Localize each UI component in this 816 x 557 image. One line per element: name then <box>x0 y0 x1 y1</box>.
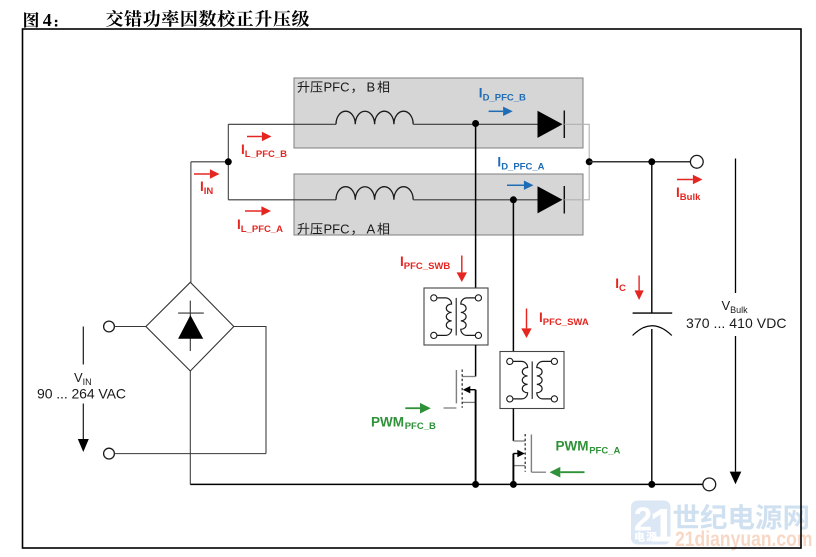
arrow I_IN <box>194 173 210 175</box>
AC input terminal top <box>104 321 115 332</box>
svg-text:PFC_B: PFC_B <box>405 421 436 432</box>
arrow I_D_PFC_A <box>507 184 524 186</box>
wire B tap to transformer <box>475 124 477 289</box>
arrow PWM_PFC_B gate drive <box>405 407 420 409</box>
wire transformer B to MOSFET drain <box>475 345 477 377</box>
node bus B source <box>472 481 479 488</box>
svg-text:C: C <box>619 283 626 294</box>
svg-text:A: A <box>367 222 376 237</box>
diode D_PFC_A <box>538 186 563 213</box>
svg-text:IN: IN <box>204 186 214 197</box>
wire bus to capacitor <box>651 162 653 313</box>
svg-text:D_PFC_B: D_PFC_B <box>483 93 526 104</box>
bridge rectifier <box>146 282 234 371</box>
DC output terminal bottom <box>703 478 716 491</box>
wire bridge top to input node <box>190 162 192 283</box>
node bus A source <box>510 481 517 488</box>
AC input terminal bottom <box>104 448 115 459</box>
arrow I_L_PFC_B <box>247 136 262 138</box>
arrow I_D_PFC_B <box>489 110 504 112</box>
wire capacitor to bus <box>651 329 653 484</box>
node capacitor tap <box>648 158 655 165</box>
arrow I_C <box>638 276 640 291</box>
svg-text:90 ... 264 VAC: 90 ... 264 VAC <box>37 386 126 402</box>
wire inductor B to diode B <box>413 123 537 125</box>
gate-drive transformer T_B <box>424 288 488 345</box>
capacitor C_Bulk <box>633 313 673 335</box>
arrow I_Bulk <box>677 179 693 181</box>
node input split junction <box>225 158 232 165</box>
node drain tap A <box>510 196 517 203</box>
DC output terminal top <box>690 155 703 168</box>
svg-text:L_PFC_B: L_PFC_B <box>245 149 287 160</box>
svg-text:B: B <box>367 80 376 95</box>
wire input top to bridge <box>115 326 146 328</box>
svg-text:PFC_A: PFC_A <box>589 445 620 456</box>
wire output bus <box>589 161 690 163</box>
boost PFC phase B block <box>294 78 583 148</box>
wire MOSFET B source to bus <box>475 390 477 485</box>
watermark 21dianyuan logo <box>631 499 676 552</box>
svg-text:Bulk: Bulk <box>730 305 748 315</box>
svg-text:L_PFC_A: L_PFC_A <box>241 224 283 235</box>
figure title 图 4： 交错功率因数校正升压级 <box>24 10 309 30</box>
watermark 世纪电源网 <box>674 504 808 530</box>
wire transformer A to MOSFET drain <box>512 409 514 442</box>
svg-text:1: 1 <box>650 499 676 552</box>
arrow I_L_PFC_A <box>245 210 261 212</box>
wire inductor A to diode A <box>413 199 537 201</box>
boost PFC phase A block <box>294 174 583 237</box>
wire input node horizontal <box>191 161 228 163</box>
wire bridge right vertex horizontal <box>234 326 266 328</box>
svg-text:PFC_SWA: PFC_SWA <box>543 317 589 328</box>
wire diode outputs join (light) <box>564 124 589 200</box>
wire phase B input <box>228 123 336 125</box>
svg-text:PFC: PFC <box>324 222 350 237</box>
node drain tap B <box>472 120 479 127</box>
inductor L_PFC_A <box>336 187 413 200</box>
node bus capacitor <box>648 481 655 488</box>
MOSFET Q_A <box>513 434 546 472</box>
svg-text:PFC: PFC <box>324 80 350 95</box>
wire MOSFET A source to bus <box>512 454 514 485</box>
svg-text:Bulk: Bulk <box>680 192 701 203</box>
wire AC return vertical <box>265 326 267 454</box>
svg-text:PWM: PWM <box>556 439 589 454</box>
gate-drive transformer T_A <box>500 352 564 409</box>
node output join <box>586 158 593 165</box>
wire A tap to transformer <box>512 200 514 352</box>
svg-text:4: 4 <box>43 10 52 30</box>
V_IN source arrow <box>82 327 84 365</box>
bottom bus wire <box>190 483 702 485</box>
arrow I_PFC_SWA <box>526 309 528 329</box>
V_Bulk dimension arrow <box>735 159 737 294</box>
arrow PWM_PFC_A gate drive <box>560 471 584 473</box>
MOSFET Q_B <box>444 370 476 409</box>
wire bridge bottom to bus <box>189 371 191 485</box>
svg-text:PWM: PWM <box>371 414 404 429</box>
wire phase A input <box>228 199 336 201</box>
diode D_PFC_B <box>538 111 563 138</box>
svg-text:D_PFC_A: D_PFC_A <box>501 162 544 173</box>
wire input bottom <box>115 453 267 455</box>
svg-text:PFC_SWB: PFC_SWB <box>404 261 451 272</box>
svg-text:370 ... 410 VDC: 370 ... 410 VDC <box>686 315 787 331</box>
inductor L_PFC_B <box>336 111 413 124</box>
wire phase split vertical <box>227 124 229 200</box>
arrow I_PFC_SWB <box>461 256 463 273</box>
